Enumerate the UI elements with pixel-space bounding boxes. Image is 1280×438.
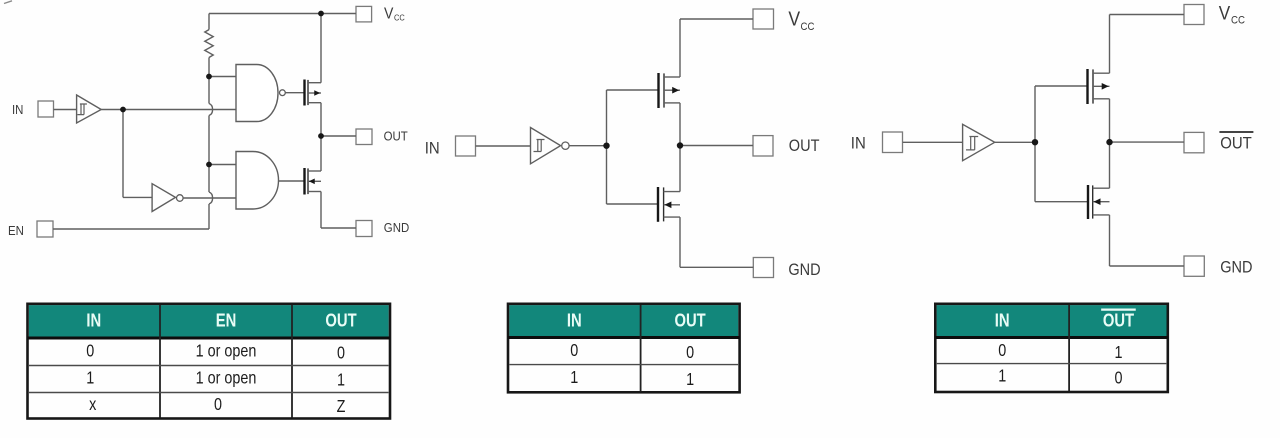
svg-text:0: 0	[998, 340, 1006, 360]
svg-text:EN: EN	[8, 223, 24, 238]
svg-text:OUT: OUT	[674, 310, 706, 331]
svg-text:OUT: OUT	[325, 310, 357, 331]
svg-text:EN: EN	[216, 310, 237, 331]
svg-text:OUT: OUT	[789, 137, 820, 155]
svg-text:GND: GND	[384, 220, 410, 235]
svg-text:CC: CC	[1231, 15, 1245, 27]
svg-text:x: x	[89, 395, 96, 415]
svg-text:IN: IN	[995, 310, 1010, 331]
svg-text:IN: IN	[12, 102, 23, 117]
svg-text:OUT: OUT	[384, 129, 409, 144]
svg-text:IN: IN	[86, 310, 101, 331]
svg-text:1: 1	[570, 368, 578, 388]
svg-text:IN: IN	[851, 135, 866, 153]
svg-text:0: 0	[86, 341, 94, 361]
svg-text:IN: IN	[567, 310, 582, 331]
svg-text:0: 0	[214, 395, 222, 415]
svg-text:1 or open: 1 or open	[196, 341, 257, 361]
svg-text:1: 1	[998, 366, 1006, 386]
svg-text:1: 1	[1114, 342, 1122, 362]
svg-text:0: 0	[570, 340, 578, 360]
svg-text:0: 0	[686, 342, 694, 362]
svg-text:CC: CC	[394, 13, 405, 23]
svg-text:V: V	[1219, 2, 1231, 24]
svg-text:Z: Z	[337, 397, 346, 417]
svg-text:1 or open: 1 or open	[196, 368, 257, 388]
svg-text:0: 0	[337, 343, 345, 363]
svg-text:V: V	[384, 4, 393, 22]
svg-text:OUT: OUT	[1220, 135, 1252, 153]
svg-text:1: 1	[337, 370, 345, 390]
svg-text:IN: IN	[425, 140, 440, 158]
svg-text:1: 1	[86, 368, 94, 388]
svg-text:GND: GND	[788, 261, 820, 279]
svg-text:GND: GND	[1220, 258, 1252, 276]
svg-text:V: V	[788, 7, 800, 29]
svg-text:0: 0	[1114, 368, 1122, 388]
svg-text:OUT: OUT	[1103, 310, 1135, 331]
svg-text:1: 1	[686, 370, 694, 390]
svg-text:CC: CC	[801, 22, 815, 34]
